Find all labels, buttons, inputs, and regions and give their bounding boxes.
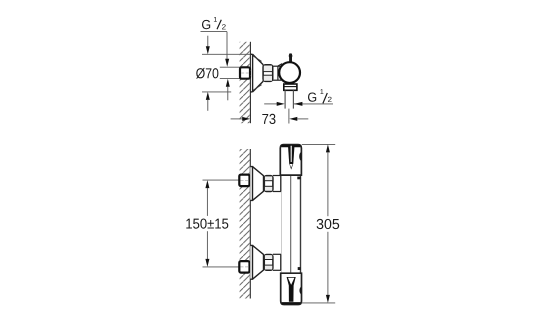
button (above bottom handle) — [298, 267, 301, 270]
neck end flange (upper connection) — [280, 176, 282, 192]
label G 1/2 (top left) — [202, 17, 226, 29]
neck between nut and body (top view) — [273, 64, 283, 81]
wall hatching (front view) — [240, 149, 251, 299]
dimension Ø70 extension line top — [202, 53, 250, 55]
thermostat body circle (top view) — [279, 62, 300, 83]
slash of G 1/2 (top left) — [217, 20, 221, 30]
dimension Ø70 extension line bottom — [202, 91, 231, 93]
wall hatching (top view) — [240, 42, 251, 123]
escutcheon (upper connection) — [250, 167, 263, 201]
dimension 305 extension line top — [302, 143, 335, 145]
neck (lower connection) — [273, 254, 282, 270]
grip mark (bottom handle) — [287, 277, 296, 302]
text 150±15 — [186, 219, 228, 229]
grip mark bottom notch (top handle) — [290, 164, 293, 168]
safestop button (below top handle) — [297, 177, 300, 180]
dimension 150±15 extension line top — [203, 179, 240, 181]
text 305 — [317, 219, 340, 229]
notch in grip mark (bottom handle) — [288, 278, 295, 285]
arrow up to nipple bottom — [226, 79, 230, 87]
union nut (lower connection) — [264, 255, 273, 271]
leader underline of G 1/2 (top left) — [201, 31, 228, 33]
tail of lower arrow — [227, 87, 229, 101]
arrow down to nipple top — [225, 59, 229, 67]
centreline in lower nipple nut — [241, 266, 249, 268]
escutcheon (lower connection) — [250, 245, 263, 279]
union nut (top view) — [263, 65, 273, 82]
centreline in upper nipple nut — [241, 179, 249, 181]
label G 1/2 (right) — [308, 89, 332, 102]
grip mark inner sliver (top handle) — [291, 146, 292, 162]
neck (upper connection) — [273, 176, 282, 192]
dimension 73 left segment with arrow at wall — [231, 117, 251, 121]
extension line pipe centre — [288, 109, 290, 124]
dimension 73 right arrow with tail — [289, 117, 308, 121]
mixer bar tube — [281, 175, 301, 273]
text Ø70 — [196, 68, 218, 79]
temperature handle (top) — [280, 145, 301, 176]
shading crescent (top handle) — [299, 152, 301, 161]
dimension 305 line with arrows — [326, 144, 330, 303]
nipple nut in wall (upper) — [239, 175, 249, 187]
volume handle (bottom) — [281, 273, 302, 304]
centreline in nipple nut (top view) — [241, 72, 249, 74]
shading crescent (bottom handle) — [299, 286, 301, 294]
thread stubs right of nipple nut — [250, 69, 251, 71]
dimension 150±15 line with arrows — [205, 180, 209, 267]
union nut (upper connection) — [264, 176, 273, 192]
escutcheon (top view) — [250, 54, 263, 92]
text 73 — [262, 114, 275, 124]
dimension 305 extension line bottom — [302, 302, 335, 304]
Ø70 upper arrow (down) — [206, 36, 210, 55]
dimension 150±15 extension line bottom — [203, 266, 240, 268]
slash of G 1/2 (right) — [323, 93, 327, 103]
nipple nut in wall (lower) — [239, 261, 249, 273]
leader drop line of G 1/2 (top left) — [226, 32, 228, 60]
extension line nipple bottom — [220, 78, 240, 80]
outlet pipe (top view) — [285, 90, 293, 108]
nipple nut in wall (top view) — [240, 67, 250, 78]
extension line nipple top — [220, 66, 240, 68]
arrow left at pipe right edge — [294, 102, 303, 106]
Ø70 lower arrow (up) — [206, 92, 210, 111]
wall surface line (top view) — [249, 42, 251, 123]
arrow right at pipe left edge with tail — [264, 102, 285, 106]
stem cap — [289, 54, 293, 57]
escutcheon inner cone lines (top view) — [253, 56, 262, 91]
collar nut under body — [284, 84, 297, 90]
stem knob on thermostat body — [289, 53, 292, 62]
grip mark (top handle) — [288, 146, 295, 170]
leader line of G 1/2 (right) — [294, 103, 333, 105]
wall surface line (front view) — [249, 149, 251, 299]
neck end flange (lower connection) — [280, 254, 282, 270]
